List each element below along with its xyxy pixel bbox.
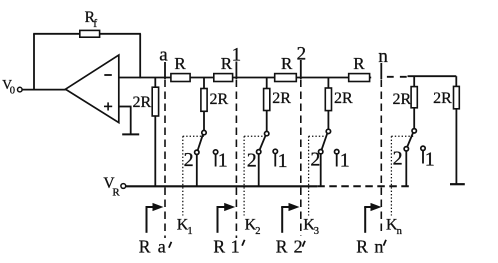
label 2 at switch K3 bbox=[310, 149, 320, 171]
control linkage dotted K1 bbox=[183, 136, 204, 215]
svg-text:R: R bbox=[112, 186, 120, 198]
svg-text:2R: 2R bbox=[433, 90, 452, 107]
svg-text:a: a bbox=[158, 236, 166, 256]
wire 2R to switch pole Kn bbox=[413, 108, 415, 129]
switch Kn blade bbox=[407, 132, 413, 147]
stub under contact 1 K1 bbox=[215, 154, 217, 166]
input arrow column 2 bbox=[281, 203, 299, 233]
node a label bbox=[159, 45, 168, 66]
ground at opamp plus input bbox=[122, 107, 139, 135]
node V0 output terminal bbox=[2, 77, 22, 97]
2R resistor (right terminator) bbox=[433, 86, 459, 108]
label K2 bbox=[245, 216, 261, 237]
label R input column n bbox=[356, 236, 368, 256]
stub under contact 1 K2 bbox=[274, 154, 276, 167]
label n-prime bbox=[374, 236, 386, 256]
wire VR rail dashed bbox=[317, 185, 410, 187]
svg-text:1: 1 bbox=[340, 150, 350, 172]
svg-text:R: R bbox=[281, 54, 293, 73]
label 2-prime bbox=[294, 236, 305, 256]
2R resistor column K3 lead top bbox=[327, 78, 329, 89]
resistor R (a-1 second) bbox=[214, 54, 233, 82]
wire VR rail solid bbox=[126, 185, 318, 187]
wire contact 2 to VR rail K1 bbox=[196, 155, 198, 188]
label 2 at switch Kn bbox=[393, 148, 403, 170]
switch K1 throw contact 1 bbox=[213, 150, 217, 154]
svg-text:1: 1 bbox=[187, 226, 192, 237]
2R resistor column K3 bbox=[325, 88, 353, 111]
wire feedback top right bbox=[100, 33, 141, 35]
control linkage dotted K3 bbox=[309, 136, 329, 215]
svg-text:1: 1 bbox=[278, 150, 288, 172]
svg-text:n: n bbox=[378, 46, 388, 67]
input arrow column n bbox=[364, 203, 381, 233]
control linkage dotted Kn bbox=[391, 136, 414, 215]
switch Kn throw contact 2 bbox=[404, 147, 408, 151]
svg-text:n: n bbox=[397, 226, 403, 237]
label 1 at switch Kn bbox=[425, 149, 435, 171]
svg-text:2: 2 bbox=[247, 149, 257, 171]
resistor R (a-1 first) bbox=[171, 54, 190, 82]
svg-text:2R: 2R bbox=[210, 91, 229, 108]
switch K2 pole contact bbox=[265, 131, 269, 135]
stub under contact 1 Kn bbox=[422, 151, 424, 164]
switch Kn throw contact 1 bbox=[421, 146, 425, 150]
svg-text:2R: 2R bbox=[133, 94, 152, 111]
switch K3 throw contact 2 bbox=[319, 150, 323, 154]
control linkage dotted K2 bbox=[244, 136, 267, 215]
wire right corner down bbox=[455, 76, 457, 86]
switch K3 throw contact 1 bbox=[335, 150, 339, 154]
2R resistor column K1 bbox=[201, 89, 229, 112]
label Kn bbox=[386, 216, 403, 237]
wire 2R left terminator to VR rail bbox=[154, 116, 156, 187]
node a tick bbox=[164, 62, 166, 79]
svg-text:f: f bbox=[93, 18, 97, 30]
2R resistor (left terminator) bbox=[133, 87, 159, 116]
2R resistor column Kn lead top bbox=[413, 76, 415, 87]
svg-text:2R: 2R bbox=[272, 90, 291, 107]
node n tick bbox=[380, 63, 382, 79]
wire feedback right vertical bbox=[139, 34, 141, 78]
label 1 at switch K1 bbox=[218, 150, 228, 172]
switch K1 throw contact 2 bbox=[195, 150, 199, 154]
label 2 at switch K1 bbox=[184, 149, 194, 171]
2R resistor column Kn bbox=[393, 87, 418, 108]
node VR reference terminal bbox=[103, 175, 125, 199]
wire 2R to switch pole K3 bbox=[327, 111, 329, 130]
wire 2R to switch pole K1 bbox=[203, 111, 205, 130]
svg-text:2R: 2R bbox=[393, 91, 412, 108]
wire feedback left vertical bbox=[33, 34, 35, 91]
wire contact 2 to VR rail K3 bbox=[320, 154, 322, 187]
wire top rail dashed continuation bbox=[387, 76, 408, 78]
switch Kn pole contact bbox=[412, 129, 416, 133]
node 2 label bbox=[297, 44, 307, 65]
label R input column a bbox=[139, 236, 151, 256]
input arrow column 1 bbox=[217, 203, 236, 233]
node 2 dashed column line bbox=[300, 80, 302, 237]
switch K2 throw contact 1 bbox=[273, 149, 277, 153]
resistor R (2-n) bbox=[349, 54, 370, 82]
node 1 dashed column line bbox=[235, 80, 237, 239]
svg-text:R: R bbox=[353, 54, 365, 73]
label 2 at switch K2 bbox=[247, 149, 257, 171]
switch K1 pole contact bbox=[202, 130, 206, 134]
switch K3 pole contact bbox=[326, 129, 330, 133]
wire contact 2 to VR rail Kn bbox=[405, 151, 407, 187]
wire feedback top left bbox=[33, 33, 80, 35]
resistor R (1-2) bbox=[275, 54, 297, 82]
svg-text:n: n bbox=[374, 236, 383, 256]
wire opamp plus input bbox=[119, 106, 132, 108]
label 1-prime bbox=[231, 236, 245, 256]
node a dashed column line bbox=[164, 80, 166, 239]
node n dashed column line bbox=[380, 80, 382, 236]
op-amp U1 bbox=[66, 55, 119, 123]
svg-text:R: R bbox=[213, 236, 225, 256]
svg-text:2: 2 bbox=[310, 149, 320, 171]
svg-text:2: 2 bbox=[297, 44, 307, 65]
switch K2 blade bbox=[259, 135, 265, 150]
svg-text:1: 1 bbox=[218, 150, 228, 172]
wire contact 2 to VR rail K2 bbox=[258, 154, 260, 187]
wire top rail right segment bbox=[408, 75, 457, 77]
svg-text:1: 1 bbox=[232, 45, 242, 66]
svg-text:2: 2 bbox=[393, 148, 403, 170]
svg-text:3: 3 bbox=[314, 226, 319, 237]
2R resistor column K2 bbox=[264, 89, 292, 111]
label R input column 1 bbox=[213, 236, 225, 256]
label 1 at switch K3 bbox=[340, 150, 350, 172]
node 1 label bbox=[232, 45, 242, 66]
svg-text:1: 1 bbox=[231, 236, 240, 256]
label 1 at switch K2 bbox=[278, 150, 288, 172]
svg-text:a: a bbox=[159, 45, 168, 66]
svg-text:2R: 2R bbox=[334, 90, 353, 107]
node n label bbox=[378, 46, 388, 67]
label K3 bbox=[303, 216, 319, 237]
wire 2R to switch pole K2 bbox=[266, 111, 268, 132]
2R resistor column K2 lead top bbox=[266, 78, 268, 90]
svg-text:2: 2 bbox=[255, 226, 260, 237]
node 2 tick bbox=[300, 60, 302, 79]
label a-prime bbox=[158, 236, 172, 256]
svg-text:2: 2 bbox=[294, 236, 303, 256]
svg-text:R: R bbox=[276, 236, 288, 256]
2R resistor (left terminator) lead top bbox=[154, 78, 156, 88]
wire right terminator down bbox=[455, 109, 457, 184]
svg-text:R: R bbox=[356, 236, 368, 256]
switch K1 blade bbox=[198, 134, 204, 151]
svg-text:1: 1 bbox=[425, 149, 435, 171]
wire V0-to-opamp output bbox=[22, 89, 66, 91]
node 1 tick bbox=[235, 62, 237, 80]
switch K2 throw contact 2 bbox=[257, 150, 261, 154]
stub under contact 1 K3 bbox=[336, 154, 338, 167]
input arrow column a bbox=[146, 203, 164, 233]
resistor Rf bbox=[80, 9, 100, 37]
label K1 bbox=[177, 216, 193, 237]
svg-text:R: R bbox=[174, 54, 186, 73]
switch K3 blade bbox=[321, 133, 327, 150]
label R input column 2 bbox=[276, 236, 288, 256]
wire top rail (summing line) bbox=[119, 77, 371, 79]
2R resistor column K1 lead top bbox=[203, 78, 205, 90]
svg-text:2: 2 bbox=[184, 149, 194, 171]
svg-text:R: R bbox=[139, 236, 151, 256]
svg-text:0: 0 bbox=[10, 86, 15, 97]
terminal bar under right terminator bbox=[450, 183, 465, 185]
